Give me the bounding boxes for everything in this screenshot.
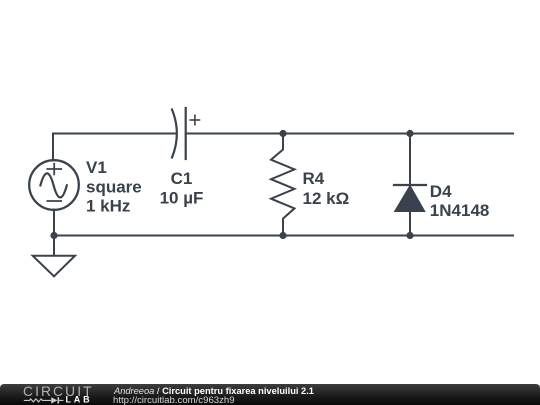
voltage source V1 (square, 1 kHz) xyxy=(29,160,79,210)
junction node V1 / ground / bottom net xyxy=(50,232,57,239)
capacitor C1 (polarized, 10 uF) xyxy=(172,108,200,159)
svg-text:V1: V1 xyxy=(86,158,107,177)
logo resistor squiggle xyxy=(24,399,51,402)
svg-text:1N4148: 1N4148 xyxy=(430,201,490,220)
wire from V1 top terminal up and right to C1 left plate xyxy=(53,134,175,161)
logo diode triangle xyxy=(51,397,57,403)
wire from V1 bottom terminal to ground xyxy=(53,210,55,256)
logo wire stub xyxy=(59,399,64,401)
svg-text:square: square xyxy=(86,177,142,196)
svg-text:C1: C1 xyxy=(171,169,193,188)
wire bottom net (ground rail) xyxy=(54,235,513,237)
junction node D4 bottom xyxy=(406,232,413,239)
ground xyxy=(33,256,75,277)
resistor R4 (12 kOhm) xyxy=(271,134,295,236)
footer bar xyxy=(0,384,540,405)
svg-text:12 kΩ: 12 kΩ xyxy=(303,189,350,208)
junction node R4 bottom xyxy=(279,232,286,239)
svg-text:http://circuitlab.com/c963zh9: http://circuitlab.com/c963zh9 xyxy=(113,395,235,405)
svg-text:1 kHz: 1 kHz xyxy=(86,197,130,216)
svg-text:10 µF: 10 µF xyxy=(160,188,204,207)
diode D4 (1N4148) xyxy=(394,134,426,236)
logo diode cathode bar xyxy=(57,397,59,403)
wire from C1 right plate to right end of top net xyxy=(186,133,513,135)
junction node R4 top xyxy=(279,130,286,137)
svg-text:D4: D4 xyxy=(430,182,452,201)
svg-text:R4: R4 xyxy=(303,169,325,188)
svg-text:LAB: LAB xyxy=(66,395,93,405)
junction node D4 top xyxy=(406,130,413,137)
